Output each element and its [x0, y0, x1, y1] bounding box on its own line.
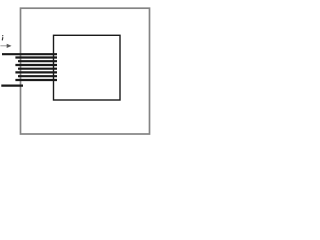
- winding top lead: [2, 53, 57, 55]
- winding turn 3: [15, 64, 57, 66]
- winding turn 6: [18, 75, 57, 77]
- winding bottom lead: [1, 84, 23, 86]
- winding turn 5: [15, 71, 57, 73]
- current arrow: [0, 44, 11, 48]
- label i (current): [2, 35, 3, 40]
- winding turn 7: [15, 79, 57, 81]
- magnetic core inner boundary (window): [54, 35, 121, 100]
- winding turn 4: [18, 68, 57, 70]
- winding turn 1: [15, 56, 57, 58]
- magnetic core outer boundary: [21, 8, 150, 134]
- winding turn 2: [18, 60, 57, 62]
